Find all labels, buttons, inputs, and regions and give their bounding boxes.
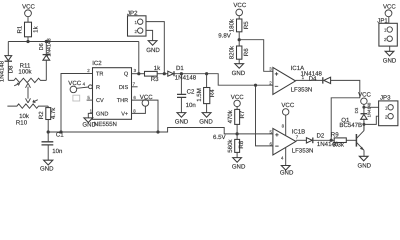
svg-text:R2: R2 <box>38 111 45 119</box>
junction R2/C1 <box>47 130 50 133</box>
svg-text:R7: R7 <box>239 110 246 118</box>
svg-text:VCC: VCC <box>358 92 371 99</box>
svg-text:THR: THR <box>117 98 129 104</box>
junction C2 <box>180 72 183 75</box>
junction comparator input tap <box>254 84 257 87</box>
diode D6 1N4148 <box>39 38 53 60</box>
pin 8 V+ wire <box>132 106 146 113</box>
svg-text:DIS: DIS <box>119 85 129 91</box>
svg-text:GND: GND <box>280 170 294 175</box>
wire TR vertical <box>61 74 93 133</box>
junction JP3 pin1 / VCC / D3 <box>362 106 365 109</box>
svg-text:LF353N: LF353N <box>291 87 313 94</box>
wire JP1 pin2 to ground <box>389 46 391 51</box>
junction TR <box>59 130 62 133</box>
junction D2/D4/R9 <box>330 139 333 142</box>
svg-text:1N4148: 1N4148 <box>47 38 53 56</box>
svg-text:GND: GND <box>232 163 246 170</box>
capacitor C1 10n <box>42 131 65 160</box>
svg-text:C1: C1 <box>56 131 64 138</box>
svg-text:10n: 10n <box>186 102 196 109</box>
wire D2 to R9 <box>313 139 334 141</box>
resistor R2 4.7k <box>38 107 57 132</box>
node C1/R2/TR/THR rail <box>48 128 237 134</box>
svg-text:GND: GND <box>199 118 213 125</box>
wire IC1A output <box>296 79 323 81</box>
junction under R1 <box>26 40 29 43</box>
svg-text:820k: 820k <box>229 45 236 59</box>
svg-text:4.7k: 4.7k <box>50 107 57 119</box>
ground (C1) <box>40 160 54 172</box>
svg-text:R: R <box>96 85 100 91</box>
svg-text:Q: Q <box>124 72 129 78</box>
svg-text:GND: GND <box>175 118 189 125</box>
resistor R3 1k <box>145 65 168 83</box>
resistor R8 560k <box>227 139 245 158</box>
svg-text:6.5V: 6.5V <box>213 134 226 141</box>
svg-text:GND: GND <box>96 112 108 118</box>
connector JP3 <box>379 94 398 125</box>
wire 6.5V node to IC1B non-inverting input <box>237 133 273 135</box>
svg-text:CV: CV <box>96 98 104 104</box>
svg-text:GND: GND <box>358 162 372 169</box>
svg-text:JP3: JP3 <box>380 94 391 101</box>
wire right branch to D6 <box>45 42 47 55</box>
wire THR vertical <box>132 100 159 132</box>
svg-text:GND: GND <box>146 47 160 54</box>
wire D1 to comparator net <box>175 74 273 86</box>
pin 5 CV stub <box>87 99 93 101</box>
svg-text:R1: R1 <box>17 25 24 33</box>
wire wiper R11 to wiper R10 <box>27 87 29 99</box>
svg-text:GND: GND <box>383 58 397 65</box>
power VCC (R5 divider) <box>233 2 246 19</box>
wire feedback Q to node A <box>138 42 140 74</box>
power VCC (top-left, feeds R1) <box>22 4 35 23</box>
power VCC (555 reset) <box>68 80 88 101</box>
power VCC (JP1) <box>383 4 396 24</box>
svg-text:GND: GND <box>40 166 54 173</box>
pin 7 DIS stub <box>132 86 138 88</box>
wire JP2 pin2 to ground <box>146 30 153 40</box>
resistor R6 820k <box>229 45 250 64</box>
svg-text:1.5M: 1.5M <box>196 88 203 102</box>
transistor Q1 BC547B <box>339 117 364 151</box>
connector JP2 <box>127 10 146 36</box>
ground (R8) <box>232 158 246 171</box>
svg-text:180k: 180k <box>229 18 236 32</box>
svg-text:VCC: VCC <box>281 102 294 109</box>
svg-text:IC2: IC2 <box>92 60 102 67</box>
ground (C2) <box>175 113 189 126</box>
ground (Q1 emitter) <box>358 156 372 169</box>
svg-text:R10: R10 <box>16 119 28 126</box>
svg-text:1N4148: 1N4148 <box>175 74 197 81</box>
diode D4 1N4148 <box>301 70 331 83</box>
ground (R4) <box>199 113 213 126</box>
diode D1 1N4148 <box>168 65 197 82</box>
diode D2 1N4148 <box>306 133 338 148</box>
op-amp timer IC2 NE555N <box>92 60 131 128</box>
wire D4 to base node (routing loop) <box>331 80 360 140</box>
svg-text:470k: 470k <box>227 109 234 123</box>
wire JP2 pin1 to R3/D1 node <box>146 22 164 74</box>
ground (JP1) <box>383 51 397 64</box>
svg-text:9.8V: 9.8V <box>218 33 231 40</box>
svg-text:560k: 560k <box>227 139 234 153</box>
svg-text:VCC: VCC <box>233 2 246 9</box>
wire D6 to R11 right <box>45 60 47 80</box>
junction JP3 pin2 / collector <box>362 123 365 126</box>
power VCC (555 V+) <box>140 94 153 106</box>
wire collector up <box>363 121 365 130</box>
wire D8 to R11 left <box>7 61 9 80</box>
wire node A horizontal (R1 bottom / D8 / D6 / feedback from 555 Q) <box>8 41 139 43</box>
svg-text:R8: R8 <box>238 140 245 148</box>
svg-text:D3: D3 <box>354 107 359 113</box>
svg-text:100k: 100k <box>18 69 32 76</box>
svg-text:3.3k: 3.3k <box>332 142 344 149</box>
svg-text:R4: R4 <box>209 89 216 97</box>
svg-text:IC1B: IC1B <box>292 128 306 135</box>
ground (555) <box>82 118 96 129</box>
svg-text:1k: 1k <box>32 25 39 32</box>
diode D3 1N4148 (flyback) <box>354 102 371 131</box>
svg-text:10n: 10n <box>52 148 62 155</box>
svg-text:R3: R3 <box>151 76 159 83</box>
svg-text:1N4148: 1N4148 <box>367 102 372 117</box>
wire VCC node to JP3 pin 1 <box>364 106 379 108</box>
resistor R4 1.5M <box>196 74 216 113</box>
op-amp IC1B LF353N <box>273 128 313 155</box>
junction above D6 <box>45 40 48 43</box>
resistor R1 1k <box>17 22 40 41</box>
wire R10 right to R2 <box>47 106 49 108</box>
connector JP1 <box>377 17 397 46</box>
potentiometer R10 10k <box>7 98 48 126</box>
svg-text:D6: D6 <box>39 43 45 50</box>
junction Q/R3 <box>137 72 140 75</box>
svg-text:TR: TR <box>96 72 103 78</box>
potentiometer R11 100k <box>8 62 46 88</box>
wire 9.8V node to IC1A non-inverting input <box>239 40 273 72</box>
svg-text:R6: R6 <box>243 48 250 56</box>
svg-text:R5: R5 <box>243 21 250 29</box>
svg-text:BC547B: BC547B <box>339 122 362 129</box>
ground (JP2) <box>146 41 160 54</box>
svg-text:D2: D2 <box>317 133 325 140</box>
svg-text:C2: C2 <box>187 88 195 95</box>
svg-text:LF353N: LF353N <box>292 148 314 155</box>
svg-text:D4: D4 <box>309 76 317 83</box>
diode D8 1N4148 <box>0 56 15 83</box>
junction JP2/R3/D1 <box>163 72 166 75</box>
resistor R9 3.3k <box>331 132 357 149</box>
pin 4 R with inversion bubble <box>89 85 93 89</box>
wire JP3 pin 2 to collector node <box>364 116 379 124</box>
wire left branch to D8 <box>7 42 9 56</box>
capacitor C2 10n <box>177 74 196 113</box>
svg-text:1N4148: 1N4148 <box>0 60 5 82</box>
svg-text:D1: D1 <box>176 65 184 72</box>
op-amp IC1A LF353N <box>273 65 312 95</box>
svg-text:NE555N: NE555N <box>94 121 117 128</box>
svg-text:GND: GND <box>82 122 96 129</box>
pin 3 Q output wire <box>132 73 145 75</box>
svg-text:GND: GND <box>232 70 246 77</box>
pin 1 GND wire <box>88 113 92 118</box>
junction THR <box>156 130 159 133</box>
svg-text:V+: V+ <box>121 112 128 118</box>
junction R4 <box>205 72 208 75</box>
wire emitter down <box>363 150 365 156</box>
resistor R5 180k <box>229 18 250 46</box>
power VCC (R7 divider) <box>231 94 244 109</box>
wire tap to IC1B inverting input <box>256 85 273 146</box>
resistor R7 470k <box>227 109 246 139</box>
wire IC1B output <box>296 139 307 141</box>
power VCC (load/JP3) <box>358 92 371 114</box>
ground (R6) <box>232 64 246 77</box>
